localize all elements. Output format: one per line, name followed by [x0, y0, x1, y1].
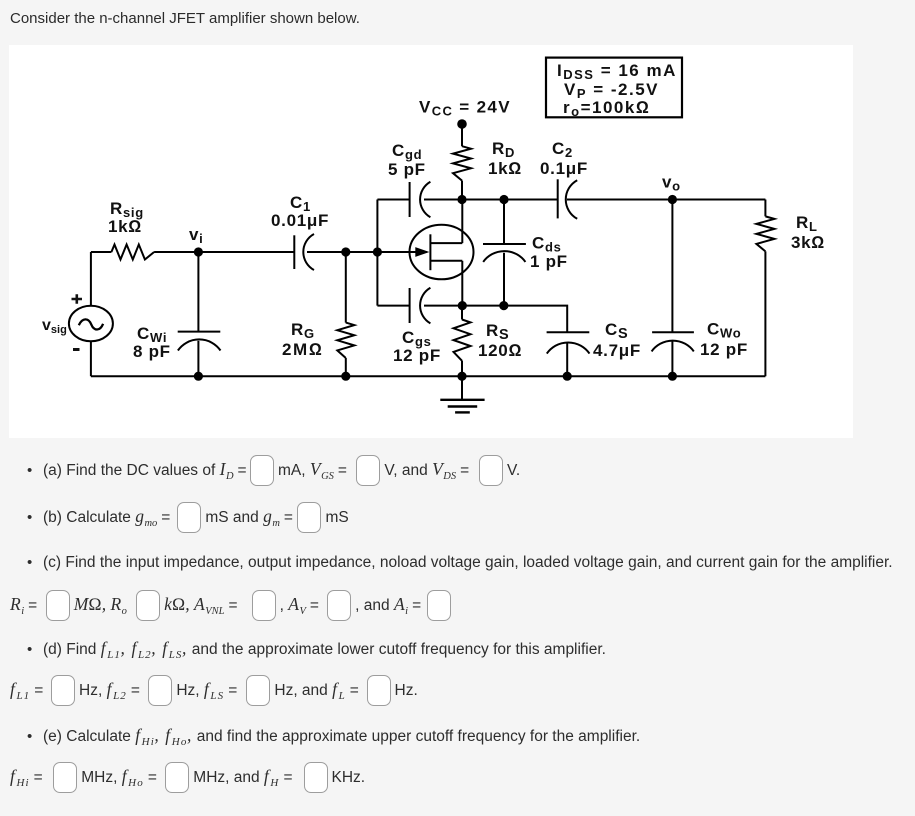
svg-text:1 pF: 1 pF: [530, 252, 568, 271]
resistor RG: [337, 252, 354, 376]
wire gate T vertical: [376, 200, 378, 306]
label Vcc = 24V: [419, 98, 511, 119]
capacitor C1: [294, 234, 314, 270]
jfet parameter box: [546, 58, 682, 118]
label CS 4.7uF: [593, 320, 641, 360]
wire gate to jfet with arrow: [377, 251, 427, 253]
svg-text:12 pF: 12 pF: [393, 346, 441, 365]
label CWo 12 pF: [700, 320, 748, 360]
capacitor CS: [547, 332, 590, 376]
resistor RS: [454, 306, 471, 377]
node vi: [194, 247, 203, 256]
label CWi 8 pF: [133, 324, 171, 361]
label vo: [662, 173, 681, 194]
capacitor C2: [558, 179, 578, 219]
svg-text:Cgd: Cgd: [392, 141, 422, 162]
svg-text:120Ω: 120Ω: [478, 341, 522, 360]
question (c): [10, 554, 893, 571]
question (b): [10, 502, 349, 531]
svg-text:CS: CS: [605, 320, 628, 342]
svg-text:1kΩ: 1kΩ: [108, 217, 142, 236]
node RG top: [341, 247, 350, 256]
svg-text:VCC = 24V: VCC = 24V: [419, 98, 511, 119]
wire vsig top: [90, 252, 92, 306]
capacitor CWo: [652, 200, 694, 377]
label +: [72, 294, 83, 303]
capacitor Cgd: [377, 182, 430, 218]
capacitor CWi: [178, 252, 221, 376]
question (a): [10, 455, 520, 484]
node drain: [457, 195, 466, 204]
label C1 0.01uF: [271, 193, 329, 230]
node bottom cwo: [668, 372, 677, 381]
node cds bottom: [499, 301, 508, 310]
label vi: [189, 225, 203, 246]
node gate stub: [373, 247, 382, 256]
label C2 0.1uF: [540, 139, 588, 178]
svg-text:1kΩ: 1kΩ: [488, 159, 522, 178]
answer row (c): [10, 590, 455, 619]
label RL 3kOhm: [791, 213, 825, 252]
bottom rail wire: [91, 375, 766, 377]
node cds top: [499, 195, 508, 204]
node vo: [668, 195, 677, 204]
capacitor Cds: [483, 200, 526, 306]
jfet Q1: [410, 200, 474, 306]
svg-text:0.01μF: 0.01μF: [271, 211, 329, 230]
svg-text:vsig: vsig: [42, 317, 67, 336]
source rail wire: [424, 306, 567, 333]
node source: [458, 301, 467, 310]
label Cgd 5 pF: [388, 141, 426, 179]
svg-text:3kΩ: 3kΩ: [791, 233, 825, 252]
wire rsig to vi: [154, 251, 198, 253]
drain rail wire: [424, 199, 765, 201]
node bottom vi: [194, 372, 203, 381]
svg-text:CWo: CWo: [707, 320, 741, 341]
svg-text:2MΩ: 2MΩ: [282, 340, 323, 359]
label Cds 1 pF: [530, 234, 568, 272]
label RS 120Ohm: [478, 321, 522, 360]
svg-text:vi: vi: [189, 225, 203, 246]
node bottom rs: [457, 372, 466, 381]
wire vi to C1: [198, 251, 294, 253]
svg-text:12 pF: 12 pF: [700, 340, 748, 359]
svg-text:0.1μF: 0.1μF: [540, 159, 588, 178]
label RG 2MOhm: [282, 320, 323, 359]
svg-text:4.7μF: 4.7μF: [593, 341, 641, 360]
svg-text:RG: RG: [291, 320, 315, 341]
resistor RD: [453, 124, 471, 200]
svg-text:RL: RL: [796, 213, 818, 234]
svg-text:ro=100kΩ: ro=100kΩ: [563, 98, 650, 119]
resistor RL: [756, 200, 774, 377]
gate arrowhead: [415, 247, 429, 257]
svg-text:RD: RD: [492, 139, 515, 160]
wire vsig bottom: [90, 341, 92, 376]
node Vcc: [457, 119, 467, 129]
wire C1 to gate node: [307, 251, 377, 253]
label RD 1kOhm: [488, 139, 522, 178]
node bottom rg: [341, 372, 350, 381]
circuit panel: [9, 45, 853, 438]
voltage source Vsig: [69, 306, 113, 342]
label IDSS VP ro: [557, 61, 677, 119]
label -: [73, 348, 80, 351]
ground: [440, 376, 484, 412]
svg-text:8 pF: 8 pF: [133, 342, 171, 361]
svg-text:IDSS = 16 mA: IDSS = 16 mA: [557, 61, 677, 82]
label Rsig 1kOhm: [108, 199, 144, 236]
svg-text:RS: RS: [486, 321, 509, 343]
question (e): [10, 727, 640, 744]
svg-text:C2: C2: [552, 139, 573, 160]
answer row (e): [10, 762, 365, 791]
answer row (d): [10, 675, 418, 704]
node bottom cs: [563, 372, 572, 381]
svg-text:5 pF: 5 pF: [388, 160, 426, 179]
capacitor Cgs: [377, 288, 430, 324]
resistor Rsig: [91, 245, 154, 260]
label Cgs 12 pF: [393, 328, 441, 365]
svg-text:vo: vo: [662, 173, 681, 194]
label vsig: [42, 317, 67, 336]
question (d): [10, 640, 606, 657]
